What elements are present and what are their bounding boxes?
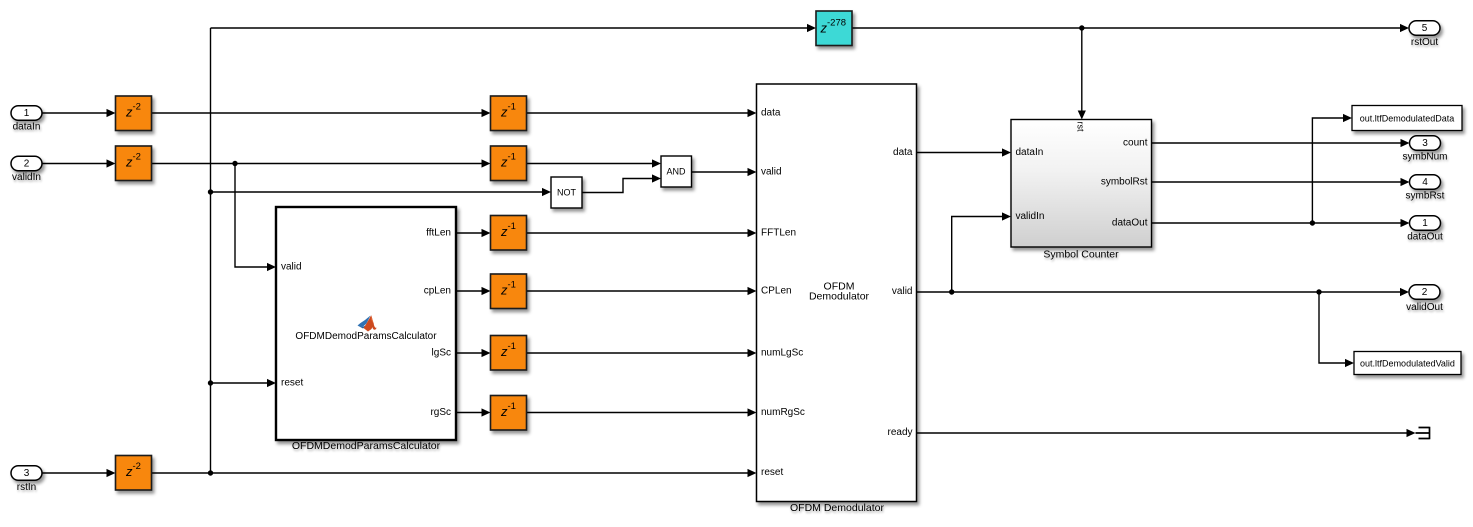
matlab icon [358,315,377,331]
terminator [1416,427,1430,440]
subsystem OFDMDemodParamsCalculator [276,207,456,440]
NOT gate [551,177,582,208]
outport 3 symbNum [1410,136,1441,151]
svg-text:dataOut: dataOut [1112,218,1148,229]
delay Z3 z-1 [491,216,527,251]
svg-text:out.ltfDemodulatedValid: out.ltfDemodulatedValid [1360,359,1455,369]
inport 3 rstIn [11,466,42,481]
caption OFDMDemodParamsCalculator [292,440,441,452]
wire delay Z278 to rstOut port [852,24,1409,32]
svg-text:-278: -278 [827,18,846,29]
svg-text:-2: -2 [133,461,141,472]
outport 1 dataOut [1410,216,1441,231]
svg-text:ready: ready [887,427,912,438]
delay D3 z-2 [116,456,152,491]
wire Symbol Counter dataOut to dataOut port [1152,219,1410,227]
svg-text:2: 2 [24,159,30,170]
pin FFTLen [761,228,796,239]
svg-text:rstIn: rstIn [17,482,36,493]
pin fftLen [426,228,451,239]
delay D2 z-2 [116,146,152,181]
wire validIn port to delay D2 [42,159,116,167]
pin reset [281,378,303,389]
svg-text:AND: AND [666,167,686,177]
label rstIn [17,482,36,493]
svg-text:OFDM Demodulator: OFDM Demodulator [790,502,884,514]
svg-text:FFTLen: FFTLen [761,228,796,239]
wire OFDM ready output to terminator [917,429,1416,437]
wire ParamsCalculator cpLen to delay Z4 [456,287,491,295]
pin rgSc [430,407,451,418]
junction rst to NOT [208,189,213,194]
wire delay Z1 to OFDM data input [527,109,757,117]
junction dataOut to workspace [1310,220,1315,225]
svg-text:fftLen: fftLen [426,228,451,239]
svg-text:lgSc: lgSc [432,348,451,359]
pin valid out [892,286,913,297]
svg-text:3: 3 [24,468,30,479]
svg-text:CPLen: CPLen [761,286,792,297]
svg-text:NOT: NOT [557,188,577,198]
wire delay D1 to delay Z1 [152,109,491,117]
wire delay D2 to delay Z2 [152,159,491,167]
to-workspace out.ltfDemodulatedData [1352,106,1462,131]
svg-text:valid: valid [281,262,302,273]
outport 2 validOut [1409,285,1440,300]
svg-text:-1: -1 [508,341,516,352]
pin numRgSc [761,407,805,418]
to-workspace out.ltfDemodulatedValid [1354,352,1461,375]
svg-text:-1: -1 [508,401,516,412]
svg-text:reset: reset [281,378,303,389]
pin dataIn [1016,147,1044,158]
wire valid down to out.ltfDemodulatedValid [1319,292,1354,367]
svg-text:symbNum: symbNum [1402,152,1447,163]
svg-text:-1: -1 [508,152,516,163]
pin numLgSc [761,348,803,359]
wire Symbol Counter count to symbNum port [1152,139,1410,147]
svg-text:1: 1 [1422,218,1428,229]
wire OFDM valid output to validOut port [917,288,1410,296]
delay Z5 z-1 [491,336,527,371]
wire delay Z2 to AND top input [527,159,662,167]
delay Z4 z-1 [491,274,527,309]
wire rstIn port to delay D3 [42,469,116,477]
pin valid [281,262,302,273]
label rstOut [1411,37,1438,48]
pin ready out [887,427,912,438]
wire ParamsCalculator fftLen to delay Z3 [456,229,491,237]
pin symbolRst [1101,177,1148,188]
svg-text:dataIn: dataIn [13,122,41,133]
delay Z278 z-278 cyan [816,11,852,46]
svg-text:OFDMDemodParamsCalculator: OFDMDemodParamsCalculator [292,440,441,452]
svg-text:numLgSc: numLgSc [761,348,803,359]
inport 2 validIn [11,156,42,171]
svg-text:dataOut: dataOut [1407,232,1443,243]
pin dataOut [1112,218,1148,229]
svg-text:5: 5 [1422,23,1428,34]
wire valid up to Symbol Counter validIn [952,212,1011,292]
label validIn [12,172,41,183]
junction rstIn trunk [208,470,213,475]
wire rst trunk to ParamsCalculator reset input [211,379,277,387]
label OFDMDemodParamsCalculator inner [295,331,437,342]
svg-text:1: 1 [24,108,30,119]
wire delay Z6 to OFDM numRgSc input [527,408,757,416]
svg-text:symbRst: symbRst [1406,191,1445,202]
pin lgSc [432,348,451,359]
pin data in [761,108,781,119]
block OFDM Demodulator [757,84,917,502]
svg-text:4: 4 [1422,177,1428,188]
delay Z1 z-1 [491,96,527,131]
label OFDM Demodulator inner [809,281,870,303]
wire rst trunk to NOT input [211,188,552,196]
pin reset [761,467,783,478]
AND gate [661,156,692,187]
junction rst to Symbol Counter [1079,25,1084,30]
svg-text:rgSc: rgSc [430,407,451,418]
svg-text:valid: valid [761,167,782,178]
label dataOut [1407,232,1443,243]
svg-text:-1: -1 [508,102,516,113]
wire rst down into Symbol Counter rst input [1078,28,1086,120]
svg-text:3: 3 [1422,138,1428,149]
svg-text:out.ltfDemodulatedData: out.ltfDemodulatedData [1360,114,1455,124]
svg-text:Demodulator: Demodulator [809,291,870,303]
svg-text:data: data [893,147,913,158]
wire AND output to OFDM valid input [692,168,757,176]
block Symbol Counter [1011,120,1152,248]
wire rst vertical trunk [210,28,212,473]
svg-text:-1: -1 [508,280,516,291]
wire dataIn port to delay D1 [42,109,116,117]
pin valid in [761,167,782,178]
wire NOT output to AND bottom input [582,174,661,192]
pin validIn [1016,211,1045,222]
wire Symbol Counter symbolRst to symbRst port [1152,178,1410,186]
delay D1 z-2 [116,96,152,131]
junction valid branch [232,161,237,166]
svg-text:data: data [761,108,781,119]
svg-text:symbolRst: symbolRst [1101,177,1148,188]
svg-text:-2: -2 [133,152,141,163]
wire rst trunk top to delay Z278 [211,24,817,32]
wire ParamsCalculator rgSc to delay Z6 [456,408,491,416]
caption OFDM Demodulator [790,502,884,514]
svg-text:rstOut: rstOut [1411,37,1438,48]
svg-text:validIn: validIn [12,172,41,183]
delay Z2 z-1 [491,146,527,181]
svg-text:OFDMDemodParamsCalculator: OFDMDemodParamsCalculator [295,331,437,342]
wire delay D3 to OFDM reset input [152,469,757,477]
wire delay Z3 to OFDM FFTLen input [527,229,757,237]
svg-text:validOut: validOut [1406,302,1443,313]
caption Symbol Counter [1043,249,1119,261]
pin rst top rotated [1076,122,1086,132]
svg-text:2: 2 [1422,287,1428,298]
junction rst to ParamsCalculator reset [208,380,213,385]
svg-text:count: count [1123,138,1148,149]
label validOut [1406,302,1443,313]
wire ParamsCalculator lgSc to delay Z5 [456,349,491,357]
inport 1 dataIn [11,106,42,121]
label dataIn [13,122,41,133]
wire dataOut up to out.ltfDemodulatedData [1312,114,1352,223]
svg-text:cpLen: cpLen [424,286,451,297]
delay Z6 z-1 [491,396,527,431]
svg-text:dataIn: dataIn [1016,147,1044,158]
svg-text:rst: rst [1076,122,1086,132]
outport 5 rstOut [1409,21,1440,36]
wire OFDM data output to Symbol Counter dataIn [917,148,1012,156]
wire valid branch to ParamsCalculator valid input [235,164,276,272]
junction valid to workspace [1316,289,1321,294]
svg-text:reset: reset [761,467,783,478]
svg-text:-2: -2 [133,102,141,113]
junction valid to Symbol Counter [949,289,954,294]
outport 4 symbRst [1410,175,1441,190]
svg-text:numRgSc: numRgSc [761,407,805,418]
pin cpLen [424,286,451,297]
pin data out [893,147,913,158]
wire delay Z4 to OFDM CPLen input [527,287,757,295]
pin count [1123,138,1148,149]
svg-text:valid: valid [892,286,913,297]
label symbRst [1406,191,1445,202]
label symbNum [1402,152,1447,163]
svg-text:Symbol Counter: Symbol Counter [1043,249,1119,261]
wire delay Z5 to OFDM numLgSc input [527,349,757,357]
svg-text:validIn: validIn [1016,211,1045,222]
svg-text:-1: -1 [508,221,516,232]
pin CPLen [761,286,792,297]
